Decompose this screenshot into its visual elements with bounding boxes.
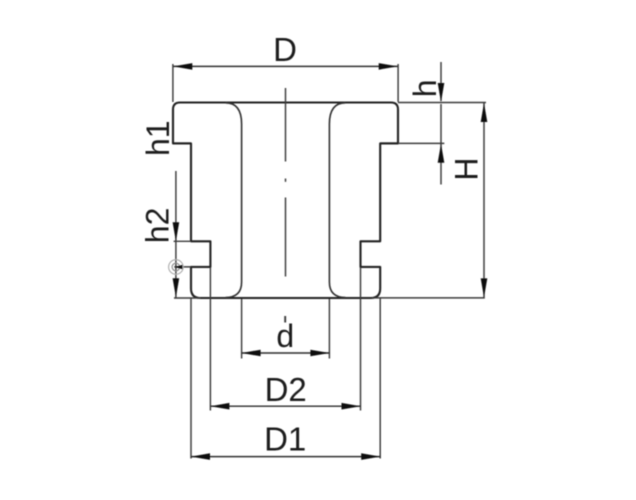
centerline [284, 88, 286, 323]
dimension D2 extension lines [210, 268, 360, 411]
svg-text:h2: h2 [139, 208, 175, 244]
bore right wall with entry and exit flares [329, 103, 345, 298]
bore left wall with entry and exit flares [226, 103, 242, 298]
D2 arrow right [342, 403, 361, 410]
svg-text:D2: D2 [265, 371, 307, 408]
svg-text:H: H [449, 157, 485, 180]
H arrow down [481, 278, 488, 297]
svg-text:D1: D1 [264, 420, 306, 457]
D2 arrow left [210, 403, 229, 410]
svg-text:d: d [276, 318, 294, 354]
h arrow down [438, 83, 445, 102]
dimension h leader and arrows [398, 62, 444, 185]
dimension D line [173, 65, 397, 67]
dimension D1 line [191, 456, 380, 458]
svg-text:h: h [407, 80, 443, 98]
h2 arrow down lower [173, 278, 180, 297]
d arrow right [310, 350, 329, 357]
tangent point marker circles [169, 260, 184, 275]
dimension D1 extension lines [191, 299, 380, 459]
small left arrow at marker [174, 265, 182, 269]
h2 extension notch bottom [174, 266, 191, 268]
d arrow left [242, 350, 261, 357]
dimension D arrow left [173, 63, 192, 70]
H arrow up [481, 103, 488, 122]
D1 arrow left [191, 453, 210, 460]
svg-text:h1: h1 [140, 120, 176, 156]
h arrow up [438, 144, 445, 163]
svg-text:D: D [273, 31, 297, 68]
h2 arrow down upper [173, 222, 180, 241]
dimension D extension lines [173, 64, 398, 102]
dimension d extension lines [242, 299, 330, 359]
dimension H extension lines [174, 103, 486, 299]
part outline (flange, body, side grooves) [173, 103, 398, 299]
dimension h2 leader [175, 171, 177, 298]
left step line [173, 142, 191, 144]
D1 arrow right [361, 453, 380, 460]
dimension D2 line [210, 405, 360, 407]
dimension H line [483, 103, 485, 297]
h2 extension notch top [174, 240, 191, 242]
dimension D arrow right [379, 63, 398, 70]
dimension d line [242, 352, 330, 354]
right step line [380, 142, 398, 144]
